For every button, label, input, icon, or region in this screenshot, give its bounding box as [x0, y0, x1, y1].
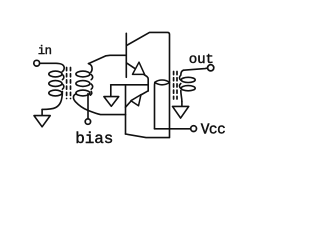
transformer T2 secondary winding [179, 70, 183, 101]
wire node A stem to ground [110, 85, 112, 97]
svg-text:in: in [38, 44, 52, 58]
transistor Q2 base bar (vertical wire) [125, 85, 127, 134]
transformer T1 core [66, 68, 68, 99]
ground (under T1 primary) [34, 116, 50, 127]
transistor Q1 emitter arrowhead [133, 62, 145, 74]
svg-text:out: out [189, 52, 214, 68]
wire Q2 to bottom rail [126, 129, 170, 138]
wire emitter node A horizontal [111, 84, 148, 86]
node Vcc terminal circle [191, 126, 197, 132]
transistor Q1 base bar [125, 33, 127, 77]
wire T1 primary to ground [41, 109, 43, 115]
transformer T1 secondary winding [89, 64, 93, 96]
transistor Q1 emitter [126, 63, 148, 91]
ground (under T2 secondary) [173, 106, 189, 118]
ground (middle left) [104, 97, 119, 107]
svg-text:Vcc: Vcc [201, 123, 226, 139]
wire T1 secondary bottom to bias node [73, 94, 125, 115]
transistor Q1 collector [127, 32, 170, 128]
bottom rail to Vcc [155, 128, 191, 130]
transistor Q2 emitter diagonal [126, 91, 149, 107]
transformer T2 primary winding (single collector loop) [155, 80, 170, 85]
node in terminal circle [34, 60, 40, 66]
wire T2 secondary bottom to ground [181, 102, 183, 107]
transformer T1 primary winding [42, 75, 64, 110]
wire T2 primary left end down to rail [154, 83, 156, 129]
wire T1 secondary top to Q1 base [89, 55, 127, 63]
wire T2 secondary top to out terminal [184, 68, 208, 70]
svg-text:bias: bias [75, 130, 113, 148]
node bias terminal circle [85, 119, 90, 124]
wire T1 secondary bottom to bias terminal [87, 94, 89, 119]
wire in terminal to transformer T1 primary [40, 63, 64, 71]
transistor Q2 emitter arrowhead [131, 95, 141, 106]
node out terminal circle [208, 65, 214, 71]
transformer T2 core [173, 72, 175, 100]
